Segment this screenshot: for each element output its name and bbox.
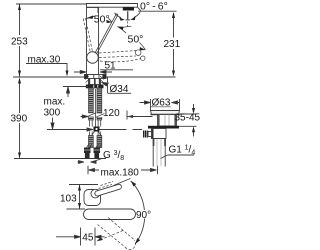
pop-up rod line left bbox=[47, 128, 93, 131]
dim 45 right arrow bbox=[95, 235, 105, 238]
aerator tilt tick bbox=[124, 26, 132, 27]
dim 45 left tick bbox=[80, 228, 82, 246]
label G1 underline bbox=[168, 154, 195, 156]
dim 35-45 top arrow bbox=[192, 108, 195, 114]
dim 51 right arrow bbox=[100, 71, 112, 74]
aerator tube bbox=[127, 11, 129, 19]
rod to waste line bbox=[127, 116, 153, 118]
faucet body column bbox=[87, 8, 99, 75]
tilt arc arrow upper bbox=[119, 17, 125, 20]
base corner hatches bbox=[85, 76, 104, 82]
tilt arc arrow lower bbox=[130, 17, 135, 21]
hose left upper bbox=[89, 88, 94, 113]
faucet spout bar bbox=[87, 4, 138, 8]
wire top extension line from spout top bbox=[16, 3, 87, 5]
svg-text:120: 120 bbox=[103, 108, 120, 119]
label dia63 underline bbox=[150, 106, 171, 108]
hose break marks bbox=[87, 113, 105, 117]
waste body right wall bbox=[174, 115, 176, 127]
arc 50 lower top arrow bbox=[118, 27, 124, 31]
top view spout bbox=[84, 209, 136, 220]
lever sweep dashed curve bbox=[100, 59, 141, 62]
aerator (mousseur) bbox=[123, 7, 134, 10]
svg-text:50°: 50° bbox=[94, 14, 110, 26]
waste dim dia63 left arrow bbox=[140, 101, 151, 104]
faucet spout underside line bbox=[138, 7, 142, 11]
dim max300 lower arrow bbox=[51, 118, 54, 130]
hose end reference line bbox=[14, 158, 106, 160]
dim G38 arrows bbox=[78, 161, 85, 164]
hose bend lines bbox=[87, 144, 102, 148]
hose left lower bbox=[90, 132, 93, 136]
waste body bbox=[158, 115, 177, 127]
waste flange ext lines bbox=[151, 99, 180, 110]
swivel arc bottom arrow bbox=[135, 238, 140, 244]
lever tip circle A bbox=[135, 50, 141, 56]
dim 35-45 ext bottom bbox=[177, 125, 197, 127]
waste tube right wall bbox=[164, 139, 166, 147]
waste flange bottom edge bbox=[151, 114, 180, 116]
label 0-6 underline bbox=[138, 10, 177, 12]
pop-up rod junction bbox=[94, 127, 100, 132]
dim max180 right arrow bbox=[141, 169, 157, 172]
arc 50 lower bottom arrow bbox=[140, 47, 146, 50]
waste rod housing bbox=[152, 129, 167, 139]
top view lever bbox=[94, 184, 122, 197]
dim max180 left tick bbox=[87, 166, 89, 174]
label dia34 bracket bbox=[107, 77, 109, 93]
svg-text:103: 103 bbox=[60, 194, 77, 205]
label dia34 leader arrow bbox=[102, 83, 108, 87]
dim 231 vertical line bbox=[173, 13, 175, 74]
max300 top reference line bbox=[63, 86, 88, 88]
deck reference line right bbox=[99, 76, 176, 78]
dim max180 right tick bbox=[157, 166, 159, 174]
dashed swung spout edge A bbox=[108, 218, 135, 241]
top view lever dashes bbox=[99, 182, 114, 189]
waste dim dia63 right arrow bbox=[172, 101, 180, 104]
top view extension line upper bbox=[69, 184, 98, 186]
lever pivot dome bbox=[87, 52, 99, 64]
deck reference line left bbox=[13, 76, 87, 78]
dashed swung spout edge B bbox=[98, 225, 126, 248]
dim 103 line bbox=[79, 185, 81, 210]
pop-up rod line right bbox=[100, 129, 143, 131]
nut slits bbox=[94, 85, 98, 88]
svg-text:max.: max. bbox=[44, 97, 66, 108]
dim 103 top arrow bbox=[78, 185, 81, 191]
dashed spout centerline with arrow bbox=[100, 231, 123, 241]
waste bottom plate bbox=[148, 126, 179, 129]
dim 35-45 line bbox=[193, 104, 195, 137]
swivel arc top arrow bbox=[131, 181, 137, 187]
arc radial line bbox=[114, 179, 131, 186]
svg-text:max.30: max.30 bbox=[28, 55, 61, 66]
svg-text:45: 45 bbox=[82, 232, 94, 243]
arc 50 upper left arrow bbox=[87, 15, 93, 19]
dim 253 top arrow bbox=[18, 4, 21, 10]
mounting nut bbox=[86, 85, 104, 89]
aerator tube flare bbox=[126, 19, 130, 21]
pull knob bbox=[143, 131, 148, 138]
svg-text:G 3/8: G 3/8 bbox=[103, 150, 124, 162]
body top stub line bbox=[97, 8, 99, 14]
dim 231 bottom arrow bbox=[172, 71, 175, 77]
junction hose tails bbox=[92, 132, 101, 136]
label max.30 underline and leader bbox=[26, 64, 67, 72]
hose right lower bbox=[98, 132, 101, 136]
aerator axis dashed bbox=[127, 22, 129, 28]
hose connector left bbox=[84, 148, 91, 159]
rod clip arm bbox=[81, 115, 89, 118]
swivel arc 90 bbox=[131, 181, 145, 244]
waste tube top line bbox=[152, 138, 167, 140]
pull knob knurl bbox=[145, 131, 147, 138]
label G38 leader bbox=[91, 159, 102, 163]
hose right inner tube bbox=[98, 120, 101, 127]
svg-text:390: 390 bbox=[11, 114, 28, 125]
dim 231 top arrow bbox=[172, 12, 175, 18]
knob neck bbox=[148, 132, 152, 137]
dim 390 top arrow bbox=[18, 78, 21, 84]
svg-text:90°: 90° bbox=[136, 210, 151, 221]
dim 51 left arrow bbox=[74, 71, 86, 74]
top view center dot bbox=[94, 193, 96, 195]
svg-text:max.180: max.180 bbox=[101, 168, 140, 179]
top view body bbox=[84, 190, 101, 206]
arc 50 deg lower bbox=[118, 27, 146, 51]
top view cartridge circle bbox=[91, 189, 100, 198]
lever dashed horizontal alternate bbox=[99, 51, 136, 58]
spacer outer walls bbox=[89, 79, 99, 85]
arc 50 deg upper bbox=[87, 16, 113, 22]
base plate slits bbox=[94, 75, 99, 79]
label 51 underline bbox=[100, 69, 133, 71]
dim 45 left arrow bbox=[56, 235, 81, 238]
lever rod solid bbox=[95, 14, 118, 54]
dim max300 arrow bbox=[67, 87, 70, 97]
dim 253 bottom arrow bbox=[18, 71, 21, 77]
svg-text:300: 300 bbox=[44, 108, 61, 119]
waste body inner lines bbox=[165, 115, 169, 127]
dim 253 vertical line bbox=[19, 4, 21, 77]
svg-text:0° - 6°: 0° - 6° bbox=[140, 1, 168, 13]
dim max180 left arrow bbox=[89, 169, 100, 172]
dim 390 bottom arrow bbox=[18, 153, 21, 159]
dim 120 arrow bbox=[126, 111, 128, 120]
dashed swung spout mid bbox=[125, 240, 136, 249]
svg-text:231: 231 bbox=[164, 39, 181, 50]
pop-up rod vertical bbox=[95, 89, 97, 127]
svg-text:253: 253 bbox=[11, 37, 28, 48]
waste body left wall bbox=[158, 115, 160, 127]
label max.30 leader arrow bbox=[66, 71, 69, 77]
lever rod dashed alternate left bbox=[83, 17, 92, 51]
dim 45 right tick bbox=[94, 228, 96, 246]
label dia34 underline bbox=[108, 92, 132, 94]
waste tube left wall bbox=[153, 139, 155, 147]
hose right upper bbox=[97, 88, 102, 113]
svg-text:35-45: 35-45 bbox=[175, 113, 201, 124]
aerator tilt arc 0-6 bbox=[115, 12, 141, 17]
svg-text:50°: 50° bbox=[128, 33, 144, 45]
mounting spacer block bbox=[89, 79, 101, 85]
waste tube inner lines bbox=[157, 139, 161, 167]
dim 103 bottom arrow bbox=[78, 203, 81, 209]
rod housing left wall bbox=[152, 129, 154, 139]
spacer verticals bbox=[94, 79, 96, 85]
connector slits bbox=[84, 149, 100, 151]
base plate bbox=[85, 75, 107, 79]
label G1 leader bbox=[161, 155, 168, 159]
waste flange bbox=[151, 111, 180, 115]
arc 50 upper right arrow bbox=[106, 20, 112, 23]
hose left inner tube bbox=[90, 120, 93, 127]
dim 390 vertical line bbox=[19, 79, 21, 158]
top view extension line lower bbox=[67, 208, 86, 210]
junction pin bbox=[95, 128, 97, 130]
dim 35-45 bottom arrow bbox=[192, 126, 195, 132]
hose connector right bbox=[94, 148, 101, 159]
dim 35-45 ext top bbox=[177, 113, 197, 115]
lever tip circle B bbox=[141, 56, 145, 60]
